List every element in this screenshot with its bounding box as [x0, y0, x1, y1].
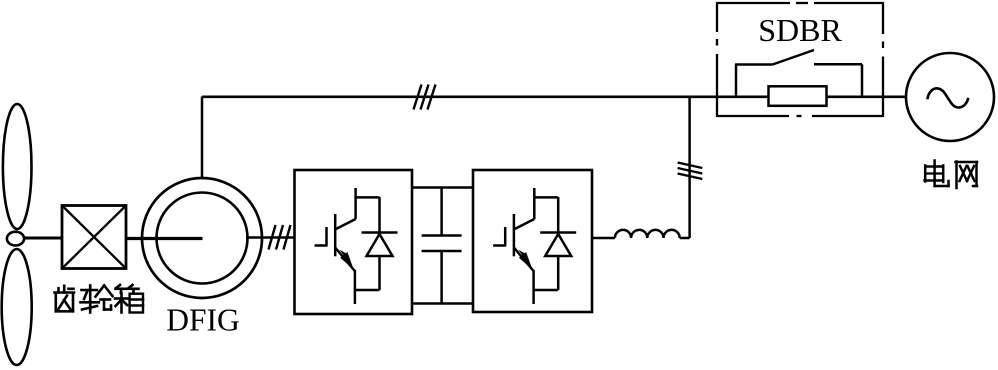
- IGBT Q1 with diode: [315, 188, 398, 304]
- DFIG inner circle: [157, 193, 248, 284]
- shaft hub to gearbox: [24, 237, 62, 240]
- wire rotor to converter: [246, 236, 295, 239]
- wire inductor to riser: [680, 237, 690, 240]
- char lun: [81, 286, 113, 313]
- converter box RSC: [295, 170, 413, 314]
- three-phase slashes on top rail: [414, 85, 436, 110]
- inductor L: [615, 230, 680, 238]
- three-phase slashes riser: [678, 163, 703, 180]
- DC link bottom rail: [412, 302, 473, 305]
- gearbox box: [62, 206, 126, 269]
- wire GSC output: [592, 237, 615, 240]
- switch S left segment: [735, 63, 773, 66]
- label gearbox (drawn glyphs): [55, 285, 144, 313]
- char wang: [956, 162, 978, 189]
- DC link top rail: [412, 186, 473, 189]
- turbine blade lower: [2, 249, 32, 365]
- capacitor C: [422, 188, 462, 304]
- IGBT Q2 with diode: [493, 188, 576, 304]
- gearbox diagonal 1: [62, 206, 126, 269]
- SDBR bypass left vertical: [735, 65, 738, 97]
- resistor R SDBR: [769, 86, 827, 106]
- svg-text:SDBR: SDBR: [758, 12, 842, 48]
- label grid (drawn glyphs): [925, 161, 978, 189]
- turbine blade upper: [3, 104, 32, 229]
- char xiang: [115, 285, 143, 313]
- three-phase slashes rotor wire: [269, 225, 291, 250]
- shaft gearbox to DFIG: [126, 237, 203, 240]
- turbine hub: [7, 232, 24, 246]
- char chi: [55, 286, 75, 312]
- converter box GSC: [473, 170, 592, 312]
- SDBR dash-dot box: [717, 2, 883, 117]
- grid source circle: [906, 53, 994, 141]
- gearbox diagonal 2: [62, 206, 126, 269]
- wire top rail: [202, 95, 907, 98]
- DFIG outer circle: [142, 178, 262, 298]
- grid sine wave: [927, 88, 968, 107]
- wire stator vertical to rail: [201, 97, 204, 179]
- SDBR bypass right vertical: [861, 64, 864, 96]
- svg-text:DFIG: DFIG: [166, 303, 240, 338]
- wire riser vertical: [688, 97, 691, 239]
- char dian: [925, 161, 949, 187]
- switch S right segment: [814, 63, 862, 66]
- switch S blade: [773, 50, 814, 65]
